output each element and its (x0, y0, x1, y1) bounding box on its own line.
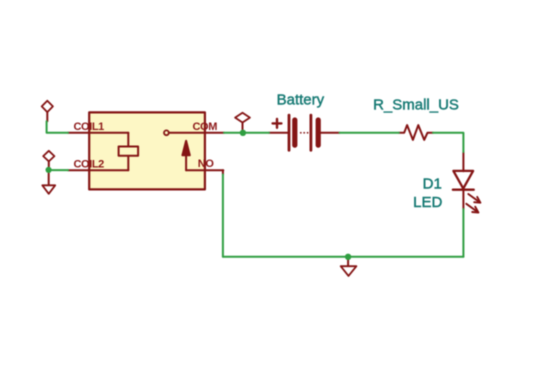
svg-text:COIL1: COIL1 (74, 121, 105, 133)
svg-text:LED: LED (413, 194, 442, 211)
svg-text:R_Small_US: R_Small_US (373, 97, 459, 114)
svg-text:D1: D1 (423, 176, 442, 193)
svg-text:COM: COM (193, 121, 218, 133)
svg-text:Battery: Battery (277, 92, 325, 109)
svg-text:COIL2: COIL2 (74, 158, 105, 170)
svg-text:NO: NO (198, 158, 215, 170)
